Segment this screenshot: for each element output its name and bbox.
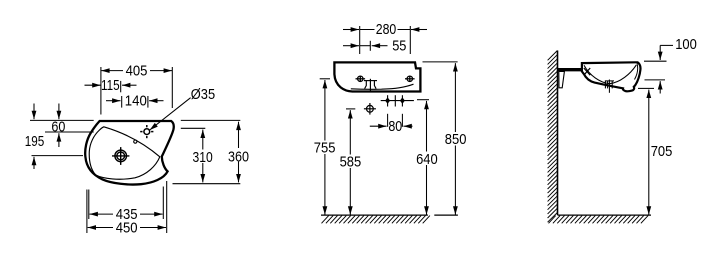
svg-text:195: 195 xyxy=(25,133,45,150)
dim 850 xyxy=(423,62,468,215)
dim 140 xyxy=(106,92,164,109)
tap cross mark (side) xyxy=(584,68,590,75)
tap hole Ø35 symbol (plan) xyxy=(140,125,153,138)
mounting bracket bar (side) xyxy=(558,68,583,71)
bracket wedge (side) xyxy=(559,72,565,88)
floor line (right) xyxy=(558,214,652,216)
pipes with junction diamonds (front) xyxy=(381,95,414,106)
floor line (middle) xyxy=(321,214,458,216)
svg-text:280: 280 xyxy=(376,21,397,38)
basin outline (front) xyxy=(334,62,420,91)
dim 280 xyxy=(343,21,427,54)
svg-text:140: 140 xyxy=(125,92,147,109)
dim 450 xyxy=(87,181,167,236)
svg-text:55: 55 xyxy=(392,37,406,54)
fixing hole left (front) xyxy=(356,76,366,82)
dim 640 xyxy=(415,100,439,215)
inner bowl line (front) xyxy=(351,84,414,89)
svg-text:100: 100 xyxy=(675,36,697,53)
svg-text:80: 80 xyxy=(388,118,402,135)
svg-text:640: 640 xyxy=(416,151,438,168)
wall line xyxy=(557,51,559,216)
overflow hole (plan) xyxy=(134,140,137,143)
floor hatching (right) xyxy=(549,216,649,224)
dim 360 (right of plan) xyxy=(173,120,250,183)
dim ref line mid (side) xyxy=(645,80,666,94)
svg-text:310: 310 xyxy=(193,149,213,166)
fixing hole right (front) xyxy=(405,76,415,82)
dim 60 (left) xyxy=(30,104,94,148)
svg-text:705: 705 xyxy=(651,143,673,160)
svg-text:450: 450 xyxy=(116,219,138,236)
svg-text:115: 115 xyxy=(101,77,120,94)
drain fitting (side) xyxy=(605,80,614,93)
basin profile (side) xyxy=(582,62,641,91)
inner rim line right (side) xyxy=(635,64,638,80)
dim 755 xyxy=(314,79,337,215)
floor hatching (middle) xyxy=(322,216,430,224)
svg-text:Ø35: Ø35 xyxy=(191,86,215,103)
dim 80 xyxy=(370,114,413,135)
svg-text:755: 755 xyxy=(314,140,336,157)
inner bowl (plan) xyxy=(89,127,160,179)
dim 100 (side) xyxy=(644,36,697,61)
basin outline (plan) xyxy=(85,121,174,185)
tap fitting (front) xyxy=(364,79,377,92)
leader line Ø35 xyxy=(150,98,191,130)
dim 55 xyxy=(343,37,406,54)
dim 195 (left) xyxy=(25,104,83,170)
svg-text:405: 405 xyxy=(126,62,148,79)
dim 115 xyxy=(85,77,137,94)
dim 405 xyxy=(101,62,172,114)
svg-text:60: 60 xyxy=(51,118,65,135)
svg-text:850: 850 xyxy=(445,131,467,148)
inner bowl arc (side) xyxy=(584,65,636,84)
svg-text:585: 585 xyxy=(340,154,362,171)
wall hatching xyxy=(548,51,558,223)
drain symbol (plan) xyxy=(112,147,129,165)
dim 310 (right of plan) xyxy=(181,128,214,182)
svg-text:360: 360 xyxy=(228,148,249,165)
dim 585 xyxy=(339,109,362,215)
drain stub crosshair (front) xyxy=(364,103,376,115)
dim 705 (side) xyxy=(638,88,672,214)
dim 435 xyxy=(89,187,164,224)
